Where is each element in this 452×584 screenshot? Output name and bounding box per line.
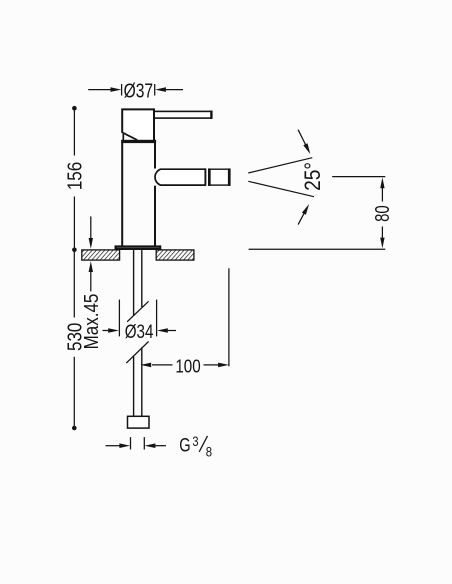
faucet body right edge upper [154, 143, 156, 169]
dimension 100 right arrow [204, 363, 229, 368]
dimension G38 right arrow [145, 443, 166, 448]
dimension D37 left tick [121, 84, 123, 96]
svg-text:156: 156 [63, 162, 86, 190]
svg-text:25°: 25° [301, 162, 326, 191]
dimension D34 left extension line [118, 300, 120, 337]
dimension D34 right arrow [157, 328, 176, 333]
dimension 530 line upper segment [73, 250, 75, 318]
dimension 530 line lower segment [72, 357, 77, 431]
dimension 80 bottom reference line [249, 248, 386, 250]
faucet head diagonal joint [122, 132, 138, 140]
supply pipe lower section [134, 347, 142, 416]
svg-text:Ø37: Ø37 [124, 79, 153, 101]
pipe break upper diagonal [127, 301, 149, 322]
supply pipe upper section [134, 250, 142, 316]
base flange [116, 247, 161, 249]
angle 25 lower leader arrow [298, 204, 309, 225]
dimension D34 right extension line [156, 300, 158, 337]
thread label fraction slash [199, 436, 207, 452]
spout end cap line [204, 168, 206, 186]
faucet body left edge [121, 143, 123, 246]
faucet body right edge lower [154, 186, 156, 246]
angle 25 upper leader arrow [298, 130, 310, 154]
svg-text:3: 3 [192, 434, 198, 449]
dimension D37 left arrow [88, 87, 121, 92]
countertop left hatched block [82, 250, 120, 260]
svg-text:80: 80 [371, 205, 394, 222]
angle 25 lower line [248, 181, 314, 196]
dimension 100 left arrow [140, 363, 172, 368]
dimension 80 down arrow [380, 227, 384, 249]
connection nut [128, 416, 150, 428]
dimension D37 right tick [154, 84, 156, 96]
dimension D37 right arrow [155, 87, 183, 92]
dimension 80 top reference line [332, 176, 385, 178]
countertop right hatched block [156, 250, 194, 260]
dimension Max.45 up arrow [89, 261, 93, 291]
svg-text:G: G [179, 434, 190, 457]
dimension 156 line upper segment [72, 106, 77, 156]
svg-text:Max.45: Max.45 [79, 294, 102, 350]
pipe break lower diagonal [126, 342, 148, 364]
svg-text:8: 8 [206, 443, 212, 460]
dimension G38 left tick [130, 437, 132, 449]
svg-text:Ø34: Ø34 [125, 320, 154, 342]
dimension G38 right tick [143, 437, 145, 449]
svg-text:100: 100 [175, 356, 200, 377]
spout nose [155, 169, 205, 185]
spout tip extension line [228, 268, 230, 366]
angle 25 upper line [248, 158, 312, 173]
dimension 80 up arrow [380, 177, 384, 201]
dimension 156 line lower segment [72, 197, 77, 253]
faucet head cap [121, 108, 155, 140]
faucet cartridge ring [121, 140, 156, 143]
dimension G38 left arrow [106, 443, 131, 448]
faucet handle lever [154, 111, 211, 119]
aerator [209, 168, 230, 186]
dimension Max.45 down arrow [89, 216, 93, 249]
faucet head lower-left edge [122, 134, 124, 140]
dimension D34 left arrow [103, 328, 120, 333]
